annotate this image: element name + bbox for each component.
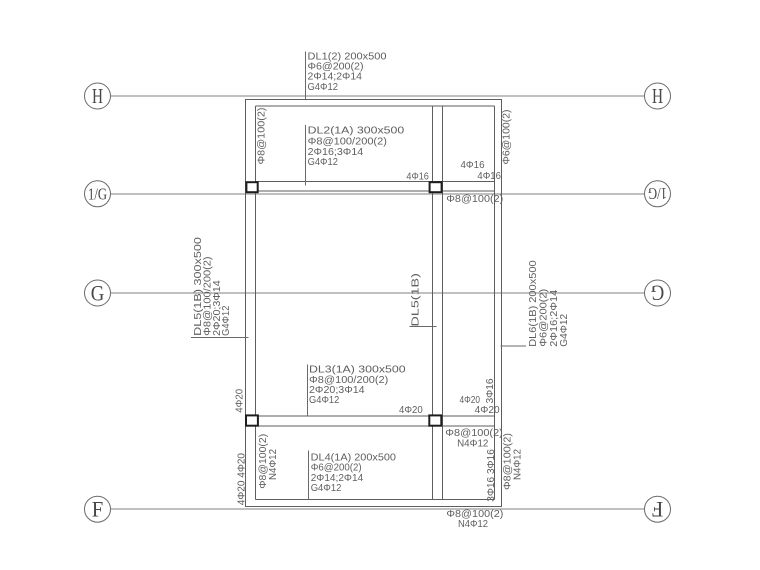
svg-text:H: H: [652, 84, 663, 108]
svg-text:4Φ16: 4Φ16: [406, 171, 429, 182]
leader DL3: [307, 365, 309, 417]
svg-text:Φ6@100(2): Φ6@100(2): [501, 110, 512, 165]
svg-text:4Φ16: 4Φ16: [461, 160, 485, 171]
gridline G: [111, 292, 645, 294]
outer wall rectangle: [245, 99, 501, 506]
top inner line: [255, 105, 494, 107]
grid circle F right (label rotated 180): [645, 496, 671, 522]
svg-text:3Φ16: 3Φ16: [485, 378, 496, 403]
leader DL4: [308, 451, 310, 500]
svg-text:4Φ20: 4Φ20: [399, 405, 423, 416]
grid circle 1/G right (label rotated 180): [645, 181, 671, 207]
svg-text:4Φ20 4Φ20: 4Φ20 4Φ20: [237, 453, 248, 506]
svg-text:G4Φ12: G4Φ12: [558, 314, 570, 347]
leader DL6: [500, 345, 525, 347]
leader DL1: [304, 52, 306, 100]
gridline F: [111, 508, 645, 510]
svg-text:DL5(1B): DL5(1B): [410, 273, 422, 326]
svg-text:G4Φ12: G4Φ12: [309, 394, 339, 406]
grid circle 1/G left: [85, 181, 111, 207]
svg-text:G4Φ12: G4Φ12: [311, 482, 342, 494]
central wall right line: [441, 106, 443, 500]
column C4: [429, 415, 441, 425]
svg-text:Φ8@100(2): Φ8@100(2): [256, 108, 267, 165]
svg-text:N4Φ12: N4Φ12: [513, 449, 524, 480]
column C2: [430, 182, 442, 192]
beam DL3 bottom line: [255, 425, 494, 427]
svg-text:F: F: [92, 496, 104, 521]
leader DL5 mid underline: [410, 325, 437, 327]
right inner line: [494, 106, 496, 500]
svg-text:N4Φ12: N4Φ12: [458, 519, 488, 530]
gridline 1/G: [111, 193, 645, 195]
svg-text:F: F: [652, 497, 664, 522]
grid circle H right (label rotated 180): [645, 83, 671, 109]
leader DL5 left underline: [191, 336, 249, 338]
svg-text:N4Φ12: N4Φ12: [457, 438, 489, 449]
central wall left line: [432, 106, 434, 500]
grid circle G right (label rotated 180): [645, 280, 671, 306]
gridline H: [111, 95, 645, 97]
svg-text:Φ8@100(2): Φ8@100(2): [446, 194, 503, 205]
grid circle H left: [85, 83, 111, 109]
svg-text:G4Φ12: G4Φ12: [308, 81, 339, 93]
column C1: [246, 182, 257, 192]
beam DL3 top line: [255, 415, 494, 417]
grid circle F left: [85, 496, 111, 522]
beam DL2 bottom line: [255, 190, 494, 192]
column C3: [246, 415, 258, 425]
leader DL2: [304, 125, 306, 186]
svg-text:4Φ20: 4Φ20: [475, 405, 500, 416]
svg-text:N4Φ12: N4Φ12: [268, 449, 279, 480]
svg-text:G4Φ12: G4Φ12: [308, 156, 338, 168]
svg-text:G: G: [91, 280, 105, 305]
grid circle G left: [85, 280, 111, 306]
svg-text:4Φ20: 4Φ20: [235, 388, 246, 412]
svg-text:1/G: 1/G: [648, 184, 667, 203]
svg-text:4Φ16: 4Φ16: [477, 171, 501, 182]
svg-text:G: G: [651, 281, 665, 306]
svg-text:3Φ16 3Φ16: 3Φ16 3Φ16: [486, 449, 497, 502]
bottom inner line: [255, 499, 494, 501]
beam DL2 top line: [255, 180, 494, 182]
svg-text:G4Φ12: G4Φ12: [220, 305, 232, 335]
svg-text:H: H: [92, 84, 103, 108]
left wall inner line: [254, 106, 256, 500]
svg-text:1/G: 1/G: [88, 184, 107, 203]
